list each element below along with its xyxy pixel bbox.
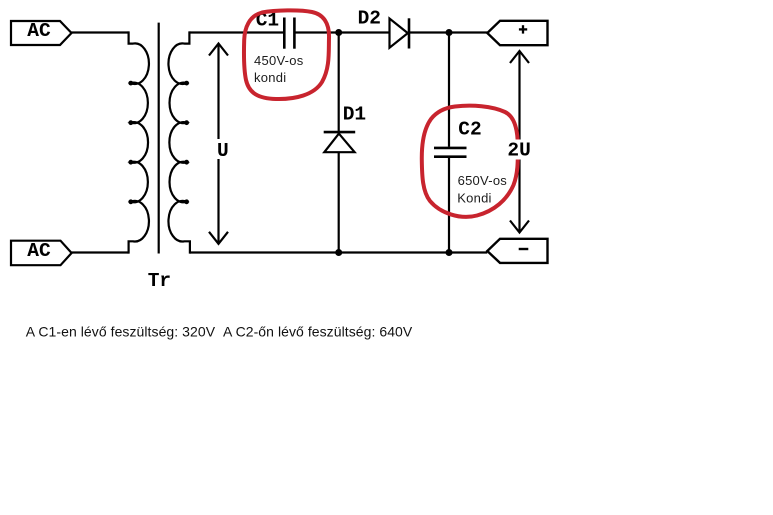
svg-text:AC: AC [27,20,51,42]
svg-text:kondi: kondi [254,70,286,85]
connector AC (bottom input) [11,241,72,266]
secondary winding cusp dots [184,81,189,205]
wire C1 to node A [296,31,390,33]
connector + output [487,21,547,45]
red circle annotation around C2 [422,106,518,217]
wire bottom AC to transformer primary [72,251,129,253]
arrow U (secondary voltage) [209,44,228,244]
label + [519,25,527,33]
svg-text:Tr: Tr [148,270,171,292]
diode D2 [390,18,410,48]
capacitor C1 [284,18,294,49]
connector - output [487,239,547,263]
label - [519,248,529,250]
node A junction dot [335,29,342,36]
wire secondary top to C1 [189,31,283,33]
capacitor C2 [434,148,467,157]
diode D1 [324,132,356,152]
svg-text:C2: C2 [458,119,481,141]
node B junction dot [446,29,453,36]
svg-text:2U: 2U [507,140,530,162]
bottom rail wire [190,251,487,253]
svg-text:Kondi: Kondi [457,191,492,206]
svg-text:450V-os: 450V-os [254,53,304,68]
svg-text:D1: D1 [343,104,366,126]
svg-text:U: U [217,140,229,162]
white box under 2U label [505,140,534,160]
wire top AC to transformer primary [72,31,129,33]
wire C2 to bottom rail [448,158,450,253]
connector AC (top input) [11,21,72,45]
wire node A down to D1 [338,33,340,132]
junction dot C2/bottom [446,249,453,256]
junction dot D1/bottom [335,249,342,256]
svg-text:D2: D2 [358,7,381,29]
wire D1 to bottom rail [338,152,340,252]
white box under U label [211,139,235,159]
arrow 2U (output voltage) [510,51,529,233]
transformer Tr primary winding [129,31,149,253]
wire node B down to C2 [448,33,450,147]
svg-text:650V-os: 650V-os [458,173,508,188]
red circle annotation around C1 [244,10,329,99]
primary winding cusp dots [128,81,133,205]
wire D2 to node B [409,31,487,33]
svg-text:A C1-en lévő feszültség: 320V: A C1-en lévő feszültség: 320V A C2-őn lé… [26,324,413,340]
svg-text:AC: AC [27,240,51,262]
transformer Tr secondary winding [168,31,189,253]
transformer core [158,23,160,254]
